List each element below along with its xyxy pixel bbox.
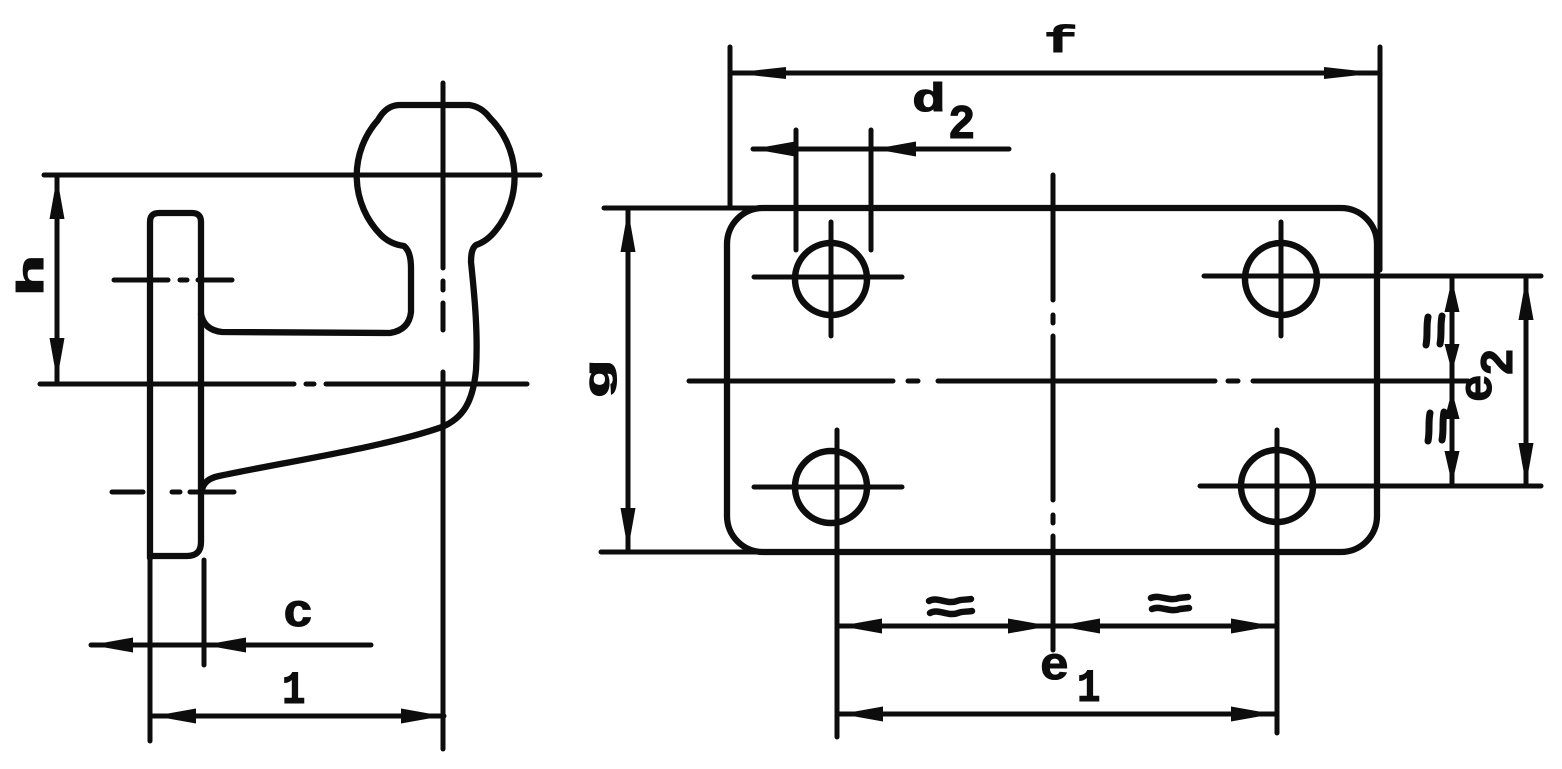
dimension c: left extension line	[148, 560, 153, 741]
dimension e2 half: dimension line	[1450, 278, 1455, 485]
dimension e2: top arrow	[1519, 278, 1534, 320]
dimension d2: outer left arrow	[753, 142, 795, 157]
right view: plate top edge extension / g top extension line	[604, 206, 765, 211]
svg-text:1: 1	[282, 664, 305, 717]
label e2 (rotated)	[1453, 348, 1526, 402]
dimension e1 half: approx symbol left	[929, 599, 972, 614]
dimension c: outer left arrow	[91, 638, 133, 653]
dimension f: right extension line	[1378, 47, 1383, 270]
dimension c: arrow at right extension	[204, 638, 246, 653]
dimension e1 half: approx symbol right	[1151, 597, 1189, 610]
dimension h: bottom arrow	[50, 338, 65, 380]
right view: hole bottom-left crosshair horizontal	[754, 485, 902, 490]
right view: vertical mid centerline of plate	[1051, 175, 1056, 650]
svg-text:d: d	[912, 77, 946, 123]
dimension l: right arrow	[401, 709, 443, 724]
label l	[282, 664, 305, 717]
svg-text:e: e	[1040, 642, 1069, 694]
dimension f: right arrow	[1324, 67, 1378, 79]
dimension e2 half: top arrow up	[1445, 279, 1460, 312]
svg-text:f: f	[1044, 22, 1077, 64]
dimension f: left extension line	[728, 47, 733, 207]
dimension l: dimension line	[153, 714, 444, 719]
label c	[283, 588, 313, 640]
dimension d2: arrow at right extension	[874, 142, 916, 157]
svg-text:h: h	[12, 255, 54, 296]
right view: hole bottom-left vertical centerline / e1 left extension	[835, 430, 840, 737]
dimension e1: right arrow	[1231, 707, 1273, 722]
dimension l: left arrow	[154, 709, 196, 724]
svg-text:2: 2	[1474, 348, 1526, 376]
dimension g: top arrow	[621, 210, 636, 252]
dimension e1 half: arrow pointing left at mid	[1058, 619, 1100, 634]
dimension e2: dimension line	[1524, 277, 1529, 486]
right view: hole bottom-right crosshair horizontal / e2 bottom extension	[1200, 484, 1541, 489]
dimension f: left arrow	[732, 67, 786, 79]
dimension e2 half: approx symbol upper (rotated)	[1426, 316, 1442, 345]
label g (rotated)	[579, 360, 620, 399]
dimension c: right extension line	[202, 560, 207, 665]
dimension e2 half: approx symbol lower (rotated)	[1428, 412, 1444, 441]
right view: plate bottom edge extension / g bottom extension line	[601, 550, 765, 555]
dimension h: top arrow	[50, 177, 65, 219]
left view: flange plate (side view)	[150, 213, 201, 558]
right view: hole top-left crosshair	[754, 222, 902, 336]
dimension e1 half: right arrow	[1231, 619, 1273, 634]
dimension g: dimension line	[626, 209, 631, 551]
dimension c: dimension line	[91, 643, 371, 648]
left view: horizontal centerline through ball / h top extension line	[44, 173, 540, 178]
dimension e2 half: bottom arrow down	[1445, 451, 1460, 484]
svg-text:1: 1	[1077, 662, 1100, 715]
dimension d2: left extension line	[794, 130, 799, 250]
label h (rotated)	[12, 255, 54, 296]
left view: main horizontal centerline / h bottom extension	[40, 382, 527, 387]
dimension e2 half: arrow up below centerline	[1445, 391, 1460, 419]
dimension h: dimension line	[55, 176, 60, 381]
dimension e1 half: dimension line	[837, 624, 1277, 629]
right view: hole top-left circle	[795, 243, 867, 315]
left view: hook arm + ball shaft + tow ball outline	[201, 105, 515, 490]
dimension e2 half: arrow down at centerline	[1445, 344, 1460, 372]
dimension e1 half: left arrow	[840, 619, 882, 634]
svg-text:g: g	[579, 360, 620, 399]
label e1	[1040, 642, 1069, 694]
right view: main horizontal centerline	[689, 379, 1468, 384]
svg-text:2: 2	[948, 99, 975, 153]
dimension e1 half: arrow pointing right at mid	[1008, 619, 1050, 634]
right view: hole top-right circle	[1245, 243, 1317, 315]
dimension d2: right extension line	[869, 130, 874, 250]
right view: hole bottom-right vertical centerline / e1 right extension	[1275, 430, 1280, 733]
left view: upper bolt-hole centerline mark	[114, 278, 232, 283]
right view: hole bottom-right circle	[1241, 450, 1313, 522]
dimension f: dimension line	[730, 71, 1380, 76]
right view: mounting plate outline	[727, 208, 1377, 552]
svg-text:e: e	[1453, 374, 1505, 402]
right view: hole top-right crosshair and e2 top extension line	[1204, 222, 1541, 336]
dimension d2: dimension line	[753, 147, 1009, 152]
label d2	[912, 77, 946, 123]
left view: vertical centerline of ball and l right extension line	[441, 83, 446, 749]
svg-text:c: c	[283, 588, 313, 640]
dimension e1: dimension line	[837, 712, 1277, 717]
dimension e2: bottom arrow	[1519, 443, 1534, 485]
right view: hole bottom-left circle	[795, 451, 867, 523]
dimension g: bottom arrow	[621, 508, 636, 550]
dimension e1: left arrow	[841, 707, 883, 722]
left view: lower bolt-hole centerline mark	[112, 490, 234, 495]
label f	[1044, 22, 1077, 64]
